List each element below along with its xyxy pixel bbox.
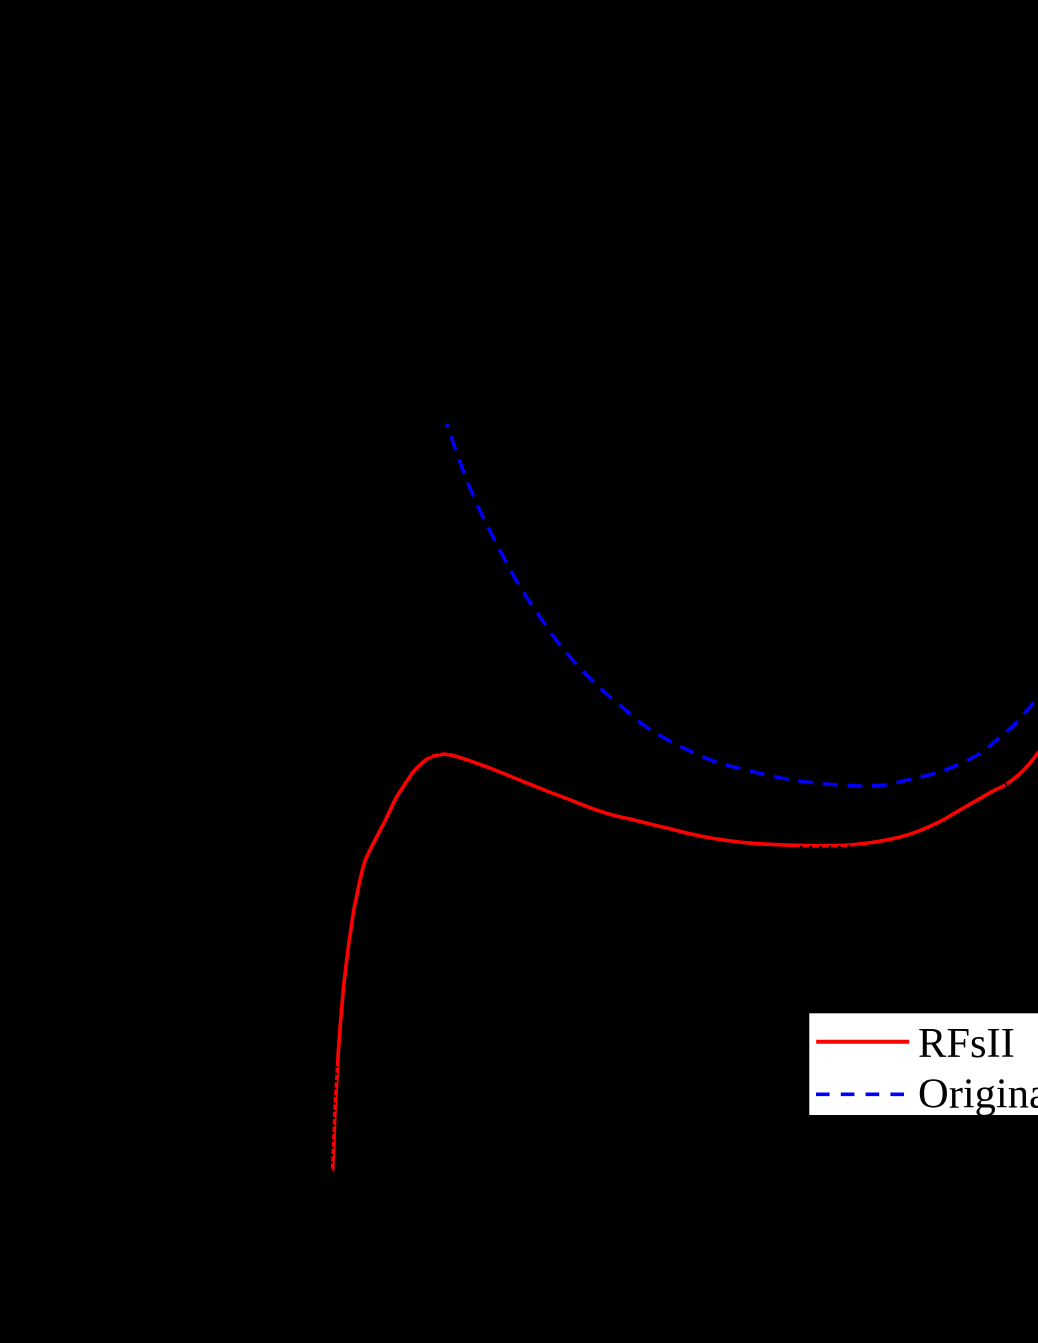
black dotted overlay near red peak bbox=[412, 752, 497, 764]
black dotted overlay near red minimum bbox=[800, 846, 858, 847]
black dotted overlay on steep red segment bbox=[332, 1066, 337, 1171]
curve RFsII (red solid) bbox=[333, 747, 1038, 1171]
legend red line bbox=[816, 1040, 909, 1044]
black speck on red rising tail bbox=[1005, 783, 1007, 785]
legend blue dashed line bbox=[816, 1093, 904, 1097]
svg-text:Original: Original bbox=[918, 1071, 1038, 1118]
curve Original (blue dashed) bbox=[447, 424, 1038, 786]
svg-text:RFsII: RFsII bbox=[918, 1020, 1015, 1067]
legend box bbox=[808, 1012, 1038, 1117]
